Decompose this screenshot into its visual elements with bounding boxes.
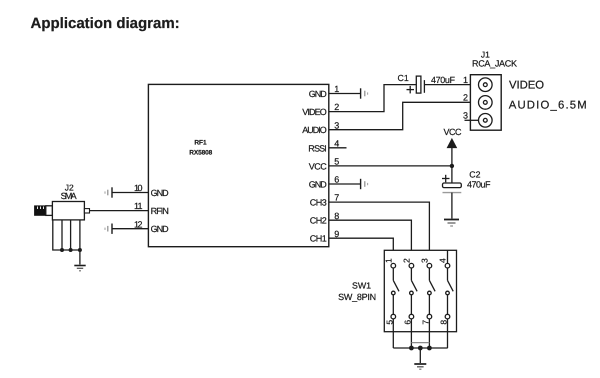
node junction J2 leg 1 [60,248,64,252]
svg-text:7: 7 [334,193,339,203]
node junction SW1 center tap [418,346,423,351]
svg-text:11: 11 [134,201,143,211]
wire C2 to ground [451,193,453,219]
svg-text:1: 1 [334,84,339,94]
svg-text:1: 1 [384,258,394,263]
ground (below J2) [74,266,85,271]
svg-text:VCC: VCC [444,127,463,137]
ground (pin 6, rotated right) [361,179,368,189]
wire pin12 to ground [112,228,148,230]
capacitor C2 [442,175,461,193]
wire J1 pin3 stub [465,119,479,121]
svg-text:8: 8 [334,211,339,221]
wire AUDIO net to J1 pin2 [329,102,479,129]
wire J2 to pin 11 [90,210,149,212]
svg-text:6: 6 [334,175,339,185]
ground (pin 1, rotated right) [361,88,368,98]
svg-text:RX5808: RX5808 [189,150,212,157]
svg-text:8: 8 [439,320,449,325]
wire J2 shield legs [53,220,81,250]
svg-text:CH1: CH1 [310,234,327,244]
svg-text:5: 5 [384,320,394,325]
wire RSSI stub [329,147,347,149]
svg-text:GND: GND [309,180,328,190]
svg-text:SW_8PIN: SW_8PIN [338,292,376,302]
svg-text:VIDEO: VIDEO [302,107,327,117]
node junction SW1 pin7 [427,346,432,351]
SW1 pole 3 (pins 3-7) [427,263,435,348]
wire pin1 to ground [329,93,361,95]
J1 pin 3 jack [479,114,493,128]
wire pin6 to ground [329,183,361,185]
svg-text:470uF: 470uF [431,75,456,85]
connector J1 RCA_JACK body [470,75,501,131]
svg-text:GND: GND [309,89,328,99]
svg-text:1: 1 [463,75,468,85]
SW1 pole 4 (pins 4-8) [445,250,453,348]
svg-text:Application diagram:: Application diagram: [31,15,180,32]
wire CH1 net to SW1 pin1 [329,238,394,263]
wire VCC net [329,165,452,167]
svg-text:C2: C2 [469,169,480,179]
svg-text:5: 5 [334,157,339,167]
switch SW1 body [384,250,456,331]
svg-text:RCA_JACK: RCA_JACK [472,59,517,69]
J2 SMA thread [35,206,53,216]
J2 SMA body [52,202,84,220]
svg-text:RF1: RF1 [194,140,207,147]
J1 pin 1 jack [479,78,493,92]
wire SW1 inner tie (gray) [411,342,429,344]
ground (pin 12, rotated left) [105,224,112,234]
svg-text:2: 2 [463,93,468,103]
svg-text:AUDIO_6.5M: AUDIO_6.5M [509,99,587,111]
ground (below SW1) [414,364,426,369]
wire pin10 to ground [112,192,148,194]
svg-text:4: 4 [334,138,339,148]
IC RF1 RX5808 body [148,84,328,246]
svg-text:GND: GND [151,224,170,234]
svg-text:CH3: CH3 [310,198,327,208]
svg-text:10: 10 [134,183,143,193]
wire SW1 bar to ground [419,348,421,363]
svg-text:VIDEO: VIDEO [509,80,544,92]
wire SW1 common bar [393,347,447,349]
svg-text:12: 12 [134,219,143,229]
svg-text:RSSI: RSSI [308,143,327,153]
svg-text:C1: C1 [398,73,409,83]
svg-text:2: 2 [334,102,339,112]
wire J2 to ground [79,250,81,265]
ground (pin 10, rotated left) [105,187,112,197]
svg-text:9: 9 [334,229,339,239]
wire VIDEO net to C1 [329,85,417,112]
node junction VCC [450,164,454,168]
svg-text:GND: GND [151,188,170,198]
svg-text:SW1: SW1 [352,280,371,290]
ground (below C2) [444,220,459,227]
node junction SW1 pin6 [409,346,414,351]
wire CH3 net to SW1 pin3 [329,202,430,264]
svg-text:RFIN: RFIN [151,206,169,216]
power VCC arrow [447,139,456,148]
J1 pin 2 jack [479,96,493,110]
SW1 pole 2 (pins 2-6) [409,263,417,348]
node junction J2 leg 3 [78,248,82,252]
svg-text:AUDIO: AUDIO [302,125,327,135]
svg-text:CH2: CH2 [310,216,327,226]
capacitor C1 [407,76,425,93]
wire CH2 net to SW1 pin2 [329,220,412,263]
svg-text:SMA: SMA [61,191,77,201]
svg-text:2: 2 [402,258,412,263]
svg-text:3: 3 [463,111,468,121]
svg-text:7: 7 [420,320,430,325]
J2 SMA center pin stub [84,209,89,213]
SW1 pole 1 (pins 1-5) [391,263,399,348]
wire C1 to J1 pin1 [424,84,478,86]
svg-text:3: 3 [334,120,339,130]
svg-text:VCC: VCC [309,161,328,171]
svg-text:470uF: 470uF [467,179,491,189]
svg-text:4: 4 [438,258,448,263]
wire VCC arrow to C2 [451,148,453,183]
svg-text:3: 3 [420,258,430,263]
node junction J2 leg 2 [69,248,73,252]
svg-text:6: 6 [402,320,412,325]
